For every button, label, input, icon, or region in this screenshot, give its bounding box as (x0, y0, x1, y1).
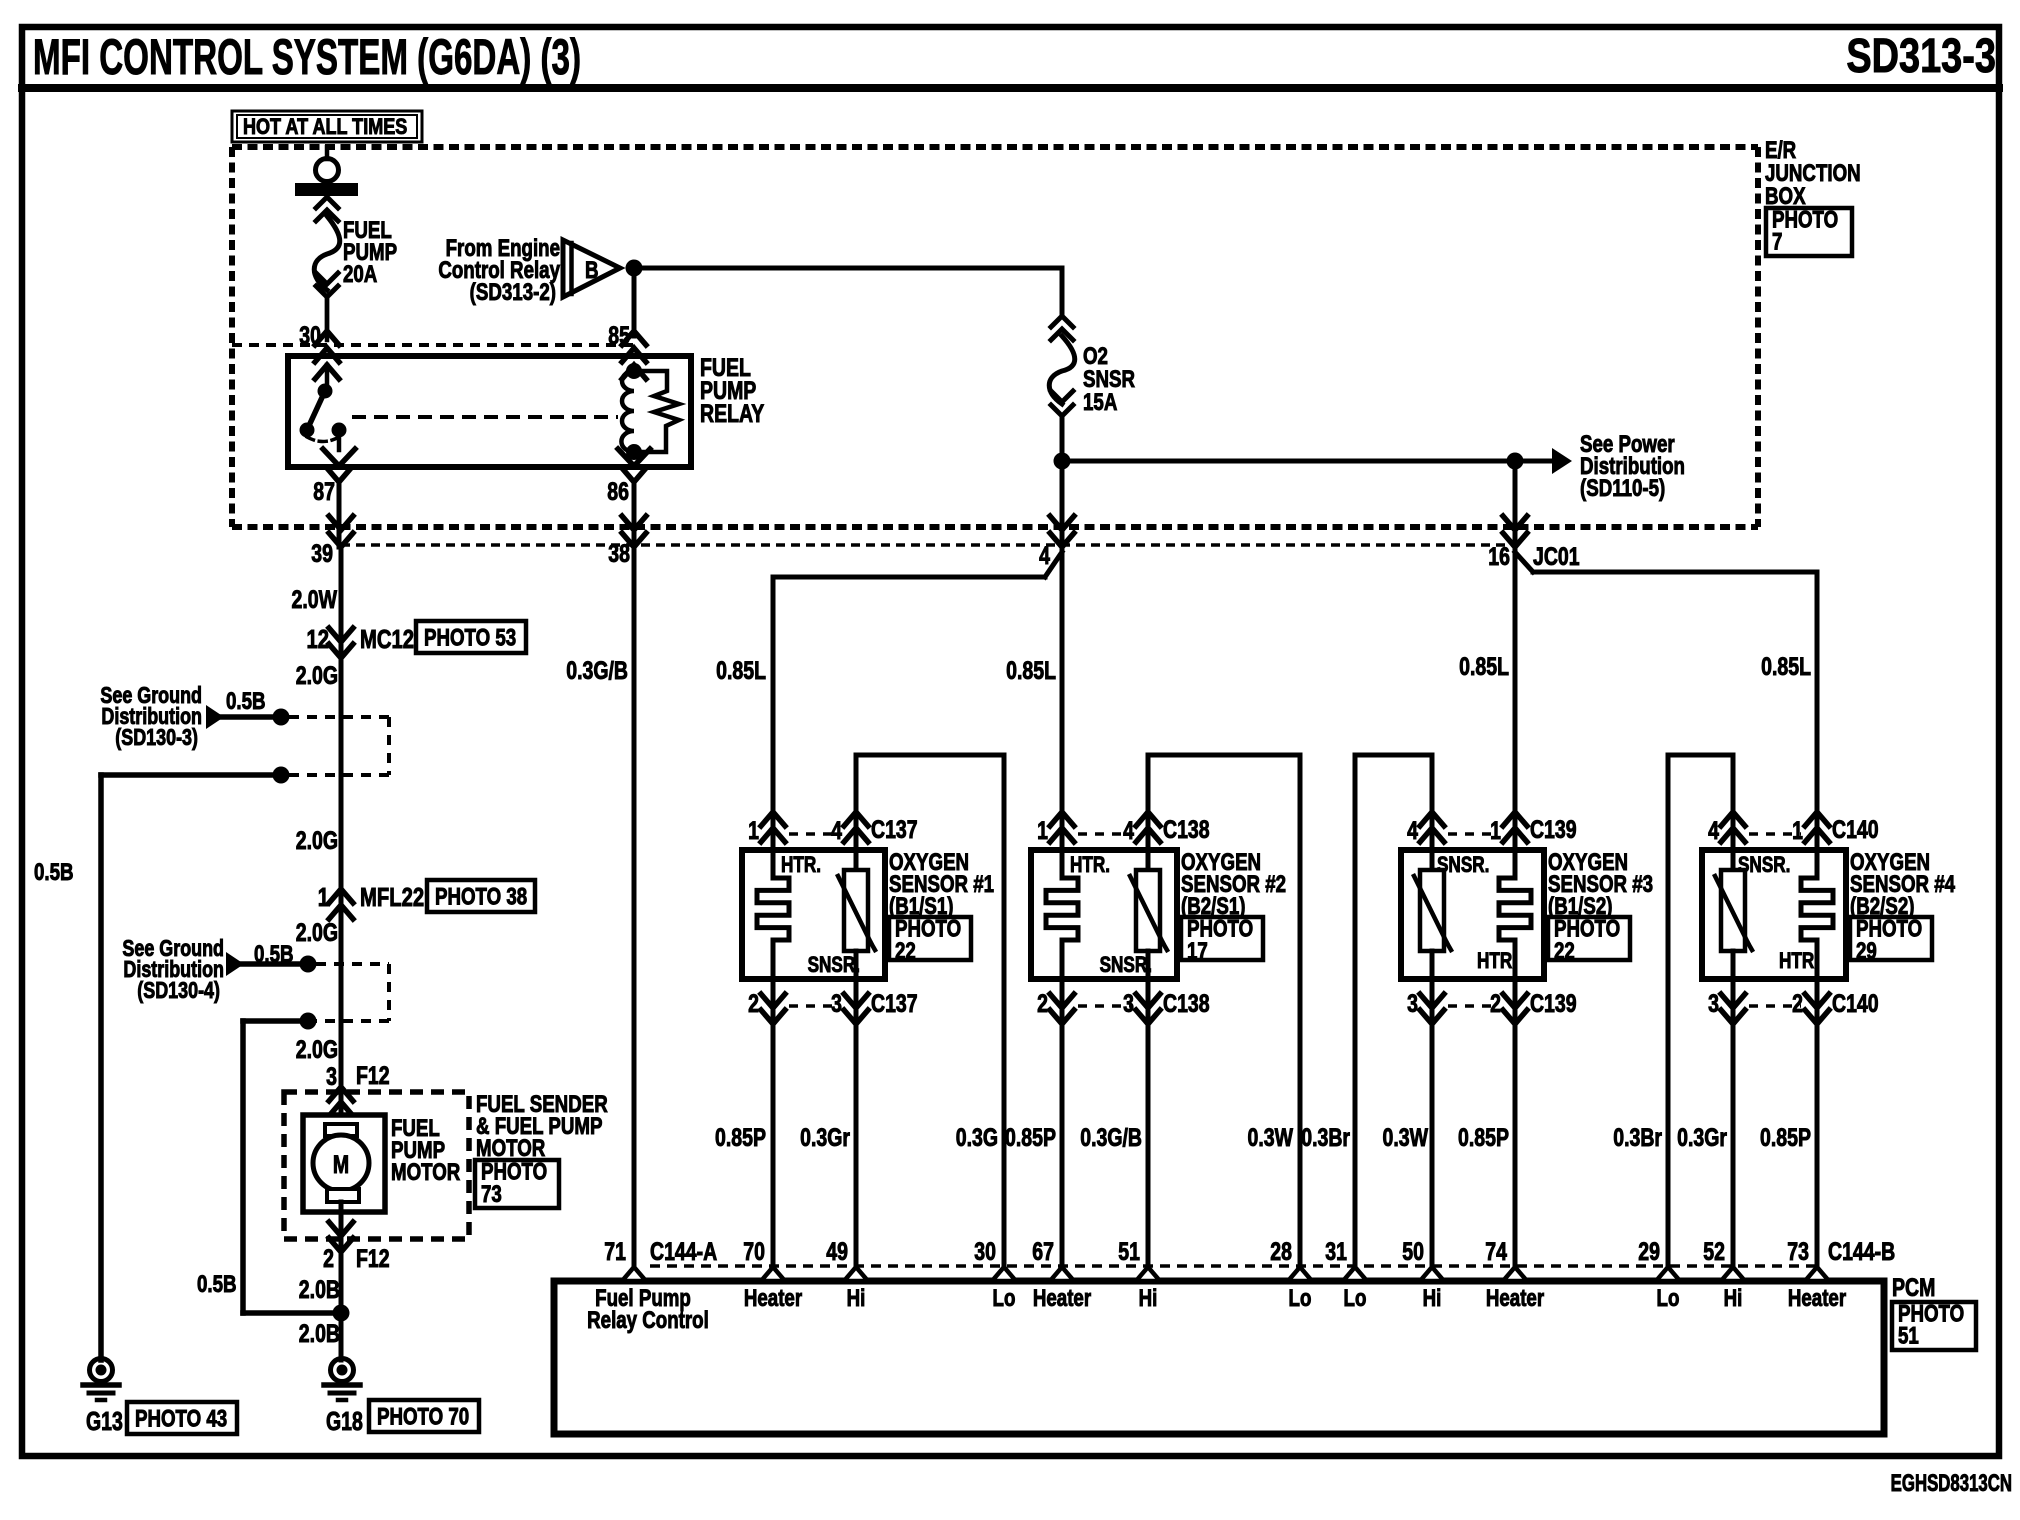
fuel sender dashed box (284, 1092, 469, 1239)
See Ground Distribution arrow 1 (206, 705, 281, 729)
connector MC12 (329, 628, 353, 658)
PHOTO 51 box (1892, 1302, 1976, 1350)
svg-text:0.5B: 0.5B (34, 859, 74, 886)
svg-text:4: 4 (1123, 817, 1134, 845)
connector 16 JC01 chevrons (1503, 516, 1527, 547)
label See Ground Distribution (SD130-4) (122, 936, 224, 1004)
pin 85 connector chevrons (622, 331, 646, 379)
svg-text:22: 22 (1554, 938, 1575, 965)
svg-text:29: 29 (1638, 1238, 1660, 1266)
svg-text:0.3G/B: 0.3G/B (566, 657, 628, 685)
svg-text:12: 12 (306, 625, 329, 654)
svg-text:39: 39 (311, 540, 333, 568)
svg-text:4: 4 (1708, 817, 1719, 845)
svg-text:1: 1 (1792, 817, 1803, 845)
svg-text:87: 87 (313, 478, 335, 506)
sensor U4 box (1702, 850, 1846, 979)
value label FUEL PUMP 20A (343, 217, 397, 288)
node right power junction (1507, 453, 1524, 470)
svg-text:PHOTO 38: PHOTO 38 (435, 883, 527, 910)
connector F12 pin 3 (329, 1087, 353, 1116)
relay K1 FUEL PUMP RELAY box (288, 356, 691, 467)
svg-text:SNSR.: SNSR. (808, 953, 860, 978)
svg-text:Lo: Lo (1344, 1285, 1367, 1312)
PCM pin 52 connector (1721, 1267, 1745, 1281)
PHOTO 29 box sensor U4 (1850, 917, 1932, 960)
sensor U2 sensing element (1130, 804, 1167, 1030)
svg-text:C138: C138 (1163, 990, 1210, 1018)
PCM pin 73 connector (1805, 1267, 1829, 1281)
PCM connector dashed line (650, 1264, 1817, 1268)
relay linkage dashed (352, 415, 618, 419)
sensor U1 name label (889, 849, 994, 920)
sensor U1 sensing element (838, 804, 875, 1030)
label From Engine Control Relay (SD313-2) (438, 235, 560, 306)
svg-text:30: 30 (974, 1238, 996, 1266)
svg-text:C140: C140 (1832, 990, 1879, 1018)
svg-text:HTR.: HTR. (1070, 853, 1110, 878)
node ground tap 2 lower (300, 1013, 317, 1030)
svg-text:0.3G: 0.3G (956, 1124, 998, 1152)
svg-text:MOTOR: MOTOR (391, 1159, 461, 1186)
thin connector dashed line below junction box (341, 543, 1516, 547)
svg-text:HTR.: HTR. (1779, 949, 1819, 974)
oxygen sensor U3 top pin chevrons (1420, 812, 1527, 842)
PCM pin 31 connector (1343, 1267, 1367, 1281)
battery feed node (295, 147, 358, 196)
label See Power Distribution (SD110-5) (1580, 431, 1685, 502)
wire from B down to relay pin 85 (632, 268, 637, 336)
svg-text:(SD130-4): (SD130-4) (137, 978, 220, 1004)
svg-text:4: 4 (1407, 817, 1418, 845)
oxygen sensor U1 top pin chevrons (761, 812, 868, 842)
svg-text:C137: C137 (871, 816, 918, 844)
svg-text:MFL22: MFL22 (360, 883, 424, 912)
PCM pin 30 connector (992, 1267, 1016, 1281)
svg-text:0.3Br: 0.3Br (1613, 1124, 1662, 1152)
sensor U4 bottom pin chevrons (1721, 994, 1829, 1024)
sensor U1 left wire to PCM (771, 1028, 776, 1281)
node ground tap 1 lower (273, 767, 290, 784)
svg-text:73: 73 (481, 1181, 502, 1208)
svg-text:2: 2 (1792, 990, 1803, 1018)
svg-text:F12: F12 (356, 1245, 390, 1273)
wire 0.5B to ground G13 (101, 775, 281, 1360)
svg-text:G13: G13 (86, 1406, 123, 1435)
label HOT AT ALL TIMES (232, 111, 422, 142)
See Ground Distribution arrow 2 (226, 952, 308, 976)
svg-text:Heater: Heater (1788, 1285, 1847, 1312)
PCM pin 51 connector (1136, 1267, 1160, 1281)
sensor U4 sensing element (1715, 804, 1752, 1030)
svg-text:1: 1 (748, 817, 759, 845)
svg-text:29: 29 (1856, 938, 1877, 965)
svg-text:JC01: JC01 (1533, 543, 1580, 571)
svg-text:0.3G/B: 0.3G/B (1080, 1124, 1142, 1152)
PCM pin 50 connector (1420, 1267, 1444, 1281)
svg-text:Hi: Hi (847, 1285, 866, 1312)
svg-text:Lo: Lo (993, 1285, 1016, 1312)
svg-text:15A: 15A (1083, 389, 1117, 416)
svg-text:Relay Control: Relay Control (587, 1307, 709, 1334)
svg-text:70: 70 (743, 1238, 765, 1266)
svg-text:20A: 20A (343, 261, 377, 288)
sensor U2 box (1031, 850, 1177, 979)
sensor U4 right wire to PCM (1815, 1028, 1820, 1281)
svg-text:MC12: MC12 (360, 625, 414, 654)
ground G13 (83, 1359, 119, 1401)
relay coil (621, 363, 642, 460)
svg-text:0.85P: 0.85P (1760, 1124, 1811, 1152)
pin 86 wire and chevrons (618, 449, 650, 547)
svg-text:0.85L: 0.85L (1006, 657, 1056, 685)
svg-text:50: 50 (1402, 1238, 1424, 1266)
wire fuse to relay pin 30 (325, 297, 330, 332)
sensor U4 left wire to PCM (1731, 1028, 1736, 1281)
svg-text:0.85L: 0.85L (716, 657, 766, 685)
svg-text:2: 2 (748, 990, 759, 1018)
svg-text:0.5B: 0.5B (197, 1271, 237, 1298)
PHOTO 7 box (1766, 208, 1852, 256)
svg-text:M: M (333, 1151, 349, 1179)
sensor U2 bottom pin chevrons (1050, 994, 1160, 1024)
wire from B to O2 fuse (634, 266, 1062, 271)
svg-text:EGHSD8313CN: EGHSD8313CN (1891, 1470, 2012, 1497)
svg-text:F12: F12 (356, 1062, 390, 1090)
relay label FUEL PUMP RELAY (700, 354, 764, 428)
svg-text:C138: C138 (1163, 816, 1210, 844)
svg-text:C139: C139 (1530, 990, 1577, 1018)
wire 0.3G/B relay to PCM (632, 547, 637, 1281)
PCM pin 29 connector (1656, 1267, 1680, 1281)
svg-text:31: 31 (1325, 1238, 1347, 1266)
wire connector 4 down to sensor 2 pin 1 (1060, 545, 1065, 850)
svg-text:71: 71 (604, 1238, 626, 1266)
svg-text:2.0B: 2.0B (299, 1320, 340, 1348)
wire connector 16 down to sensor 3 pin 1 (1513, 545, 1518, 850)
PHOTO 17 box sensor U2 (1181, 917, 1263, 960)
PHOTO 53 box (416, 621, 526, 653)
svg-text:PHOTO 53: PHOTO 53 (424, 624, 516, 651)
svg-text:Heater: Heater (1033, 1285, 1092, 1312)
sensor U3 right wire to PCM (1513, 1028, 1518, 1281)
See Power Distribution arrow (1515, 448, 1572, 474)
svg-text:28: 28 (1270, 1238, 1292, 1266)
svg-text:HTR.: HTR. (1477, 949, 1517, 974)
connector MFL22 (329, 889, 353, 919)
sensor U3 name label (1548, 849, 1653, 920)
sensor U3 bottom pin chevrons (1420, 994, 1527, 1024)
value label O2 SNSR 15A (1083, 343, 1135, 416)
sensor U1 pin dashed top (789, 832, 840, 836)
sensor U1 signal loop wire (856, 755, 1004, 1281)
wire right junction to connector 16 (1513, 461, 1518, 545)
fuse FUEL PUMP 20A (314, 197, 340, 340)
E/R junction box dashed boundary (232, 147, 1758, 527)
svg-text:3: 3 (831, 990, 842, 1018)
svg-text:C137: C137 (871, 990, 918, 1018)
sensor U4 pin dashed bottom (1749, 1004, 1801, 1008)
svg-text:74: 74 (1485, 1238, 1507, 1266)
svg-text:73: 73 (1787, 1238, 1809, 1266)
connector dashed line above relay (232, 343, 634, 347)
PHOTO 73 box (475, 1160, 559, 1208)
wire to ground G18 (339, 1313, 344, 1360)
svg-text:38: 38 (608, 540, 630, 568)
wire branch to oxygen sensor 1 (773, 552, 1062, 850)
sensor U1 right wire to PCM (854, 1028, 859, 1281)
ground G18 (324, 1359, 360, 1401)
relay switch (300, 384, 347, 442)
wire power junction to right node (1062, 459, 1515, 464)
relay coil parallel resistor (634, 371, 679, 452)
svg-text:0.3Gr: 0.3Gr (800, 1124, 850, 1152)
sensor U1 heater element (757, 804, 789, 1030)
svg-text:2.0G: 2.0G (296, 919, 338, 947)
connector F12 pin 2 (329, 1222, 353, 1252)
svg-text:HOT AT ALL TIMES: HOT AT ALL TIMES (243, 115, 407, 139)
svg-text:SD313-3: SD313-3 (1846, 30, 1996, 83)
svg-text:51: 51 (1898, 1323, 1919, 1350)
svg-text:7: 7 (1772, 229, 1782, 256)
sensor U4 heater element (1801, 804, 1833, 1030)
sensor U3 heater element (1499, 804, 1531, 1030)
PCM pin 70 connector (761, 1267, 785, 1281)
sensor U2 left wire to PCM (1060, 1028, 1065, 1281)
node 2.0B junction (333, 1305, 350, 1322)
svg-text:2.0G: 2.0G (296, 827, 338, 855)
pin 30 connector chevrons (315, 331, 339, 391)
svg-text:49: 49 (826, 1238, 848, 1266)
svg-text:2.0G: 2.0G (296, 662, 338, 690)
connector 38 chevrons (622, 516, 646, 547)
sensor U3 signal loop wire (1355, 755, 1432, 1281)
PCM pin 49 connector (844, 1267, 868, 1281)
svg-text:Heater: Heater (744, 1285, 803, 1312)
label See Ground Distribution (SD130-3) (100, 683, 202, 751)
connector 39 chevrons (329, 516, 353, 547)
svg-text:0.3W: 0.3W (1383, 1124, 1429, 1152)
svg-text:RELAY: RELAY (700, 400, 764, 428)
PHOTO 38 box (427, 880, 535, 912)
sensor U3 pin dashed top (1448, 832, 1499, 836)
wire 0.5B to 2.0B junction (243, 1021, 341, 1313)
fuse O2 SNSR 15A (1049, 268, 1075, 461)
svg-text:PHOTO 43: PHOTO 43 (135, 1405, 227, 1432)
svg-text:0.85P: 0.85P (1458, 1124, 1509, 1152)
svg-text:2.0W: 2.0W (292, 586, 338, 614)
PCM pin 74 connector (1503, 1267, 1527, 1281)
sensor U2 right wire to PCM (1146, 1028, 1151, 1281)
sensor U2 pin dashed top (1078, 832, 1132, 836)
svg-text:3: 3 (1407, 990, 1418, 1018)
svg-text:Lo: Lo (1657, 1285, 1680, 1312)
PCM pin 71 connector (622, 1267, 646, 1281)
pin 87 wire and chevrons (323, 430, 355, 547)
dashed link ground tap 1 (289, 717, 389, 775)
svg-text:MFI CONTROL SYSTEM (G6DA) (3): MFI CONTROL SYSTEM (G6DA) (3) (33, 29, 581, 84)
PCM pin 28 connector (1288, 1267, 1312, 1281)
sensor U2 name label (1181, 849, 1286, 920)
sensor U4 signal loop wire (1668, 755, 1733, 1281)
svg-text:G18: G18 (326, 1406, 363, 1435)
wire branch to oxygen sensor 4 (1515, 552, 1817, 850)
PCM pin 71 function label Fuel Pump Relay Control (587, 1285, 709, 1334)
svg-text:Heater: Heater (1486, 1285, 1545, 1312)
svg-text:3: 3 (326, 1063, 337, 1091)
svg-text:4: 4 (1039, 542, 1050, 570)
svg-text:B: B (585, 257, 599, 284)
sensor U4 name label (1850, 849, 1955, 920)
PHOTO 22 box sensor U1 (889, 917, 971, 960)
svg-text:52: 52 (1703, 1238, 1725, 1266)
svg-text:PHOTO 70: PHOTO 70 (377, 1403, 469, 1430)
sensor U4 pin dashed top (1749, 832, 1801, 836)
sensor U2 signal loop wire (1148, 755, 1300, 1281)
svg-text:Lo: Lo (1289, 1285, 1312, 1312)
svg-text:1: 1 (1037, 817, 1048, 845)
svg-text:SNSR.: SNSR. (1100, 953, 1152, 978)
svg-text:3: 3 (1708, 990, 1719, 1018)
svg-text:0.3Gr: 0.3Gr (1677, 1124, 1727, 1152)
PHOTO 43 box (127, 1402, 237, 1434)
svg-text:17: 17 (1187, 938, 1208, 965)
svg-text:Hi: Hi (1139, 1285, 1158, 1312)
svg-text:C139: C139 (1530, 816, 1577, 844)
node ground tap 2 upper (300, 956, 317, 973)
svg-text:2.0G: 2.0G (296, 1036, 338, 1064)
sensor U1 box (742, 850, 885, 979)
svg-text:C144-A: C144-A (650, 1238, 717, 1266)
svg-text:86: 86 (607, 478, 629, 506)
oxygen sensor U2 top pin chevrons (1050, 812, 1160, 842)
motor M1 FUEL PUMP MOTOR (303, 1115, 385, 1313)
svg-text:Hi: Hi (1423, 1285, 1442, 1312)
svg-text:PCM: PCM (1892, 1274, 1935, 1302)
sensor U3 sensing element (1414, 804, 1451, 1030)
svg-text:2: 2 (1490, 990, 1501, 1018)
PHOTO 22 box sensor U3 (1548, 917, 1630, 960)
sensor U3 pin dashed bottom (1448, 1004, 1499, 1008)
E/R JUNCTION BOX label (1765, 137, 1861, 210)
oxygen sensor U4 top pin chevrons (1721, 812, 1829, 842)
svg-text:(SD313-2): (SD313-2) (470, 279, 556, 306)
PCM box (554, 1281, 1884, 1434)
PCM pin 67 connector (1050, 1267, 1074, 1281)
sensor U3 left wire to PCM (1430, 1028, 1435, 1281)
svg-text:C140: C140 (1832, 816, 1879, 844)
sensor U1 bottom pin chevrons (761, 994, 868, 1024)
svg-text:0.85P: 0.85P (1005, 1124, 1056, 1152)
svg-text:2: 2 (1037, 990, 1048, 1018)
sensor U2 heater element (1046, 804, 1078, 1030)
svg-text:51: 51 (1118, 1238, 1140, 1266)
sensor U2 pin dashed bottom (1078, 1004, 1132, 1008)
svg-text:(SD110-5): (SD110-5) (1580, 475, 1665, 502)
svg-text:0.85L: 0.85L (1459, 653, 1509, 681)
connector 4 chevrons (1050, 516, 1074, 547)
svg-text:C144-B: C144-B (1828, 1238, 1895, 1266)
svg-text:HTR.: HTR. (781, 853, 821, 878)
svg-text:4: 4 (831, 817, 842, 845)
connector triangle B From Engine Control Relay (563, 240, 620, 297)
svg-text:67: 67 (1032, 1238, 1054, 1266)
svg-text:1: 1 (1490, 817, 1501, 845)
svg-text:0.85L: 0.85L (1761, 653, 1811, 681)
dashed link ground tap 2 (316, 964, 389, 1021)
wire junction to connector 4 (1060, 461, 1065, 545)
svg-text:16: 16 (1488, 543, 1510, 571)
svg-text:0.3W: 0.3W (1248, 1124, 1294, 1152)
svg-text:0.85P: 0.85P (715, 1124, 766, 1152)
svg-text:0.5B: 0.5B (226, 688, 266, 715)
svg-text:Hi: Hi (1724, 1285, 1743, 1312)
PHOTO 70 box (369, 1400, 479, 1432)
svg-text:2: 2 (323, 1245, 334, 1273)
node at triangle B output (626, 260, 643, 277)
label FUEL SENDER & FUEL PUMP MOTOR (476, 1091, 608, 1162)
node ground tap 1 upper (273, 709, 290, 726)
svg-text:3: 3 (1123, 990, 1134, 1018)
svg-text:22: 22 (895, 938, 916, 965)
svg-text:0.3Br: 0.3Br (1301, 1124, 1350, 1152)
sensor U3 box (1401, 850, 1544, 979)
wire 2.0W from pin 39 to MC12 (339, 547, 344, 1126)
svg-text:(SD130-3): (SD130-3) (115, 725, 198, 751)
label FUEL PUMP MOTOR (391, 1115, 461, 1186)
sensor U1 pin dashed bottom (789, 1004, 840, 1008)
svg-text:1: 1 (318, 883, 329, 912)
svg-text:2.0B: 2.0B (299, 1276, 340, 1304)
node power junction (1054, 453, 1071, 470)
